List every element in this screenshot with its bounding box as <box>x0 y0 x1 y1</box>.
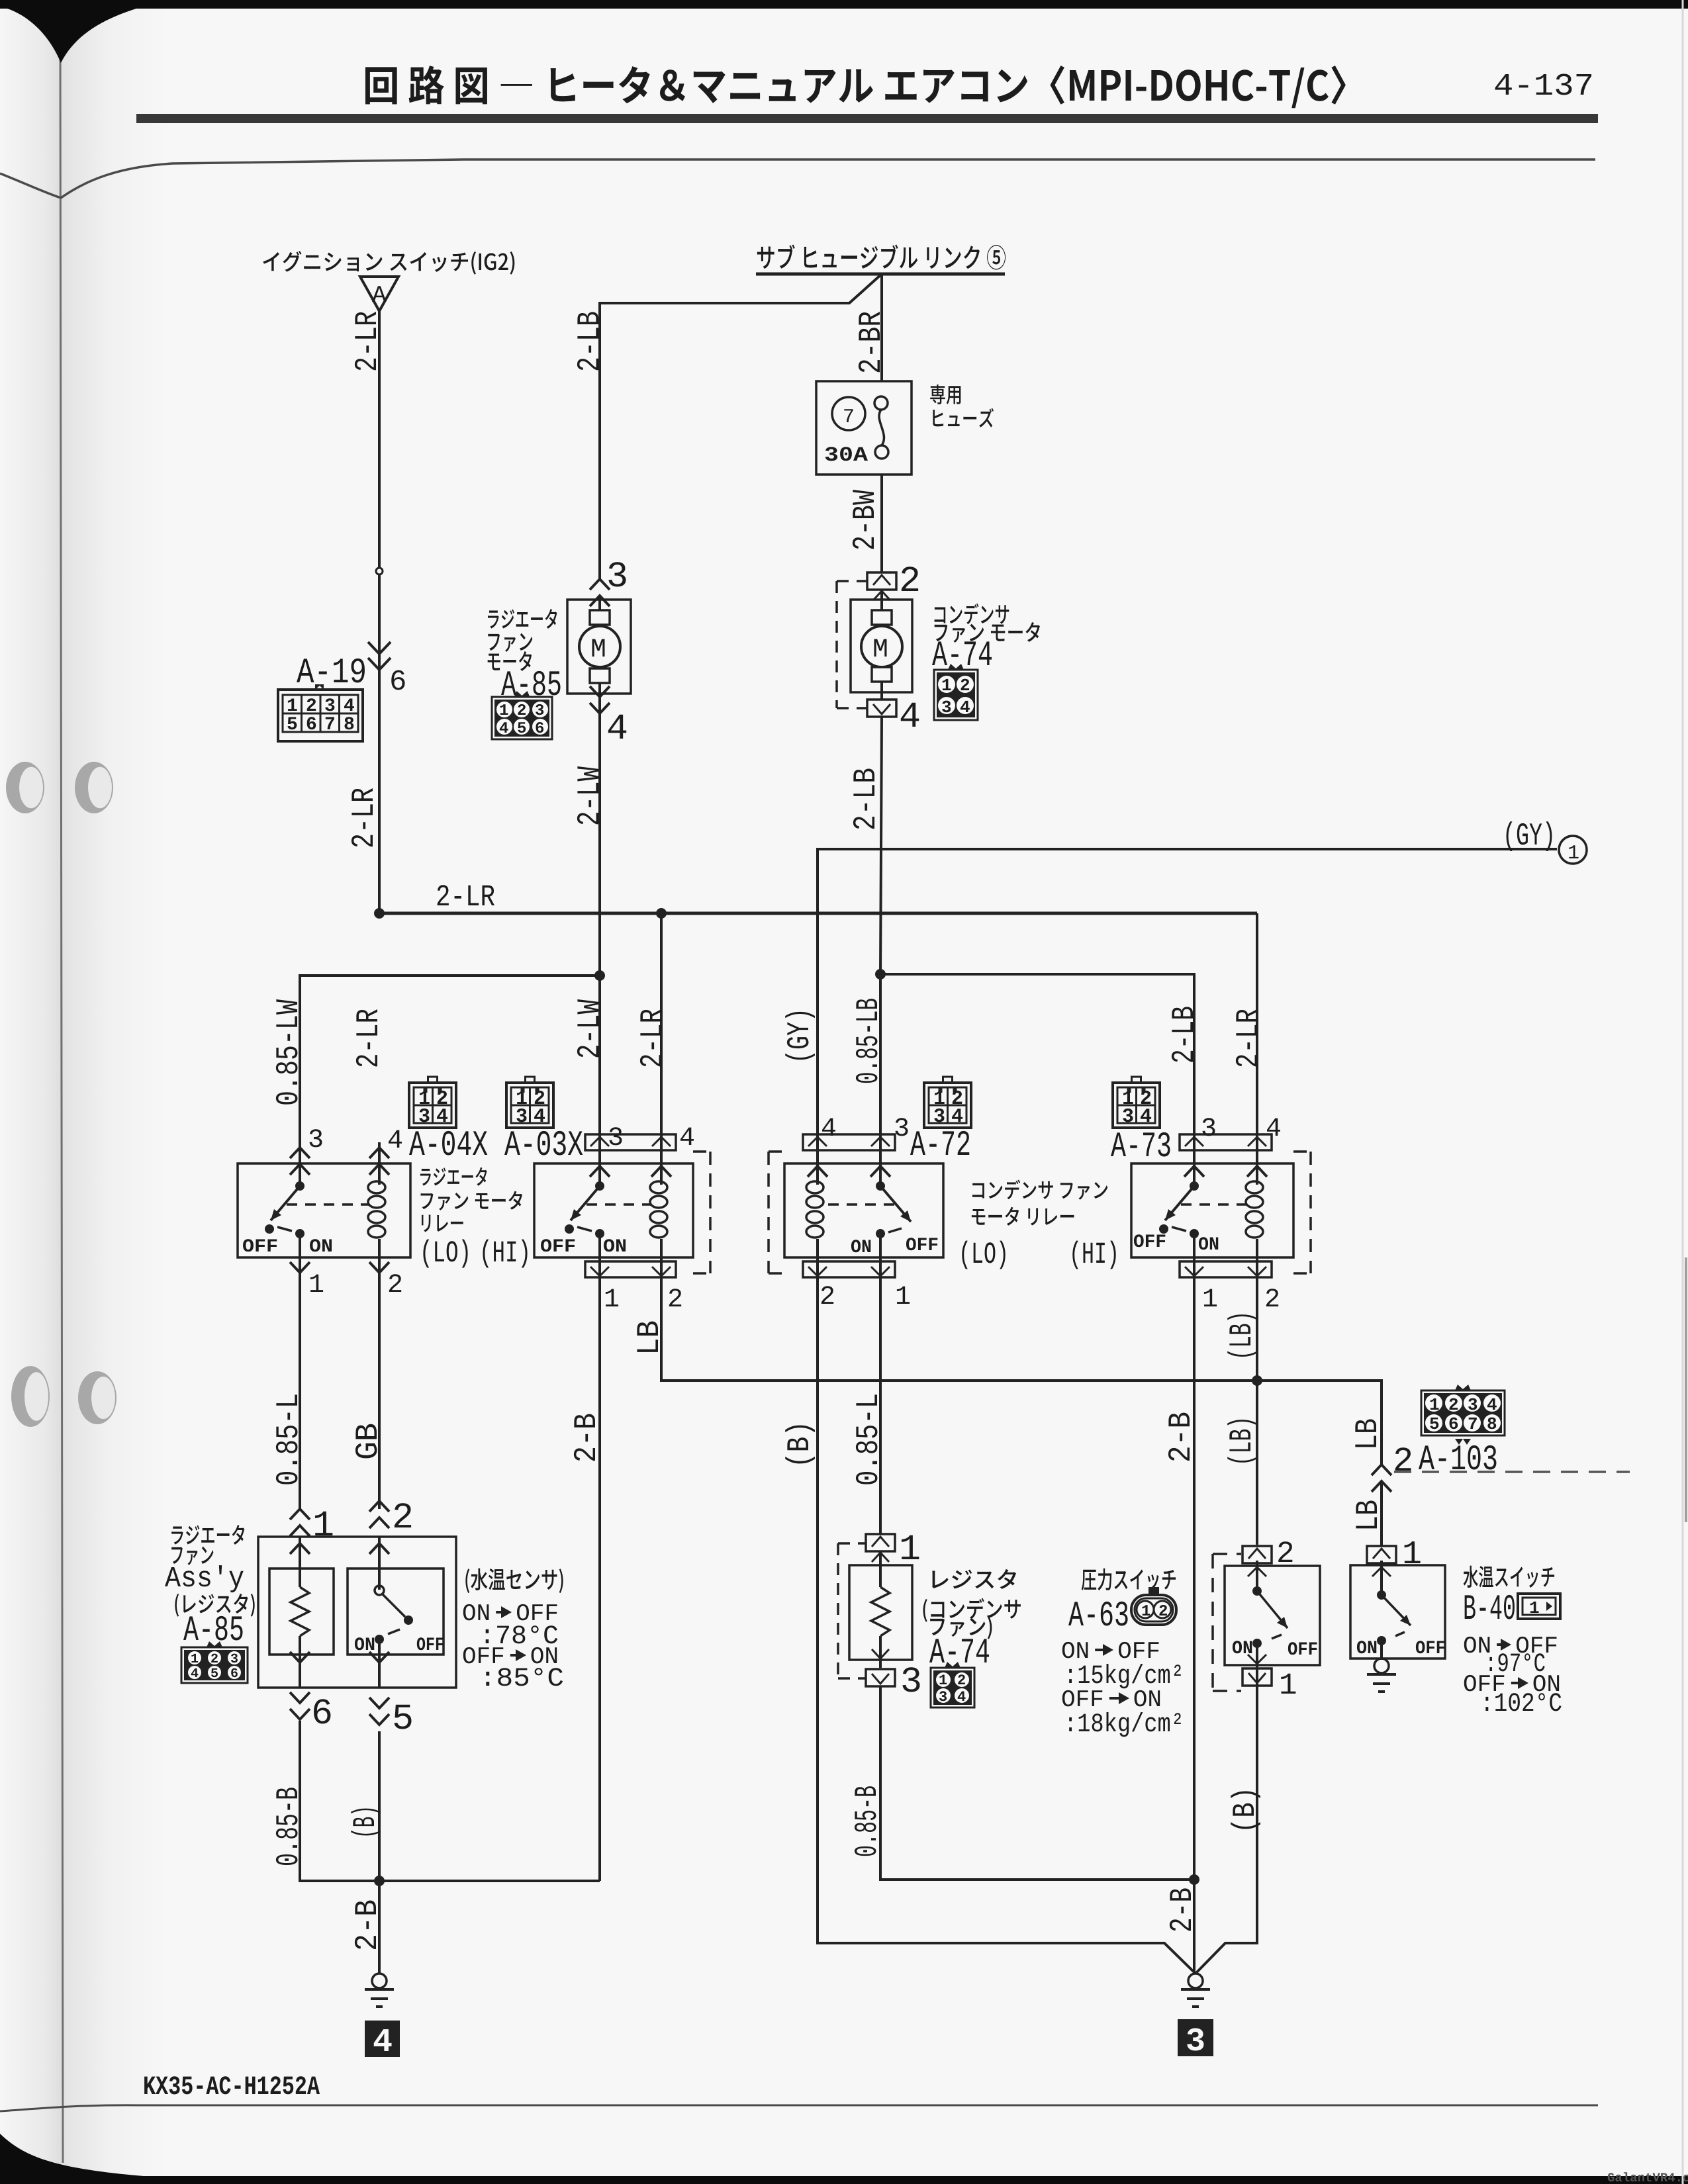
wire LB A-103 to water temp switch <box>1356 1482 1382 1546</box>
wire 2-LB from fusible link to radiator fan motor <box>577 274 882 579</box>
relay A-73 condenser fan motor relay HI <box>1072 1077 1311 1306</box>
resistor condenser fan A-74 <box>838 1534 1021 1707</box>
wire 2-B condenser HI relay to ground <box>1168 1294 1199 1974</box>
wire 0.85-B resistor to ground bus <box>855 1686 1194 1880</box>
wire B fan assy pin5 to ground bus <box>351 1731 600 1886</box>
wire 2-LR bus <box>374 885 1257 919</box>
wire 2-LR to condenser HI relay pin4 <box>1236 913 1257 1142</box>
wire 2-LW from radiator fan motor to relays <box>577 740 605 1142</box>
wire 0.85-LB to condenser LO relay pin3 <box>856 974 880 1134</box>
wire 0.85-LW to radiator LO relay pin3 <box>276 976 600 1148</box>
wire B pressure switch to ground <box>1196 1684 1260 1974</box>
connector A-103 <box>1372 1385 1630 1492</box>
bottom rule <box>0 2105 1598 2111</box>
wire LB condenser HI relay pin2 to pressure switch <box>1227 1294 1257 1545</box>
wire 0.85-L condenser LO relay to resistor <box>856 1294 880 1534</box>
wire 2-B radiator HI relay to ground bus <box>574 1294 600 1881</box>
radiator fan motor A-85 <box>488 562 631 740</box>
wire 2-LB to condenser HI relay pin3 <box>880 974 1194 1142</box>
wire 2-LR segment to radiator LO relay pin4 <box>356 1009 377 1066</box>
wire B condenser LO relay pin2 to ground <box>785 1294 1196 1974</box>
water temp switch B-40 <box>1350 1541 1562 1711</box>
ground left with terminal 4 <box>355 1881 400 2057</box>
wire LB radiator HI relay to A-103 <box>637 1294 1382 1465</box>
ground right with terminal 3 <box>1178 1974 1213 2056</box>
wire GB radiator relay to fan assy <box>355 1294 379 1509</box>
document code KX35-AC-H1252A <box>144 2076 320 2094</box>
wire 2-LB from condenser fan motor <box>853 716 886 979</box>
wire 2-LR to radiator HI relay pin4 <box>640 913 661 1142</box>
wire 2-BR from fusible link to fuse <box>859 275 882 381</box>
fuse 7 30A 専用ヒューズ <box>816 381 994 475</box>
sub fusible link 5 <box>756 245 1006 274</box>
schematic frame top line <box>0 159 1595 198</box>
wire 2-BW from fuse to condenser fan motor <box>853 475 882 572</box>
radiator fan assembly A-85 <box>165 1501 456 1729</box>
relay A-04X radiator fan motor relay LO <box>238 1077 522 1294</box>
relay A-03X radiator fan motor relay HI <box>483 1077 710 1306</box>
wire 0.85-L radiator relay to fan assy <box>276 1294 300 1509</box>
ground below water temp switch <box>1367 1659 1396 1692</box>
wire 2-LR from ignition switch <box>352 311 383 913</box>
wire GY to terminal 1 <box>785 821 1587 1142</box>
pressure switch A-63 <box>1062 1541 1320 1737</box>
water temp sensor note <box>463 1569 563 1686</box>
relay A-72 condenser fan motor relay LO <box>769 1077 1107 1304</box>
page number 4-137 <box>1495 74 1592 95</box>
wire 0.85-B fan assy to ground bus <box>276 1721 379 1881</box>
connector A-19 <box>278 642 405 741</box>
condenser fan motor A-74 <box>837 567 1040 727</box>
page title 回路図 ヒータ＆マニュアル エアコン <box>365 66 1346 108</box>
title rule <box>136 114 1598 123</box>
ignition switch terminal A (IG2) <box>263 251 514 311</box>
